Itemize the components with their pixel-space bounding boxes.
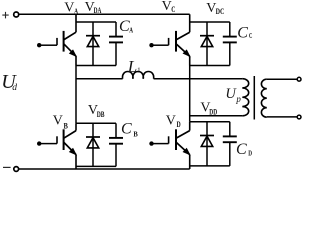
label CD [236, 141, 253, 158]
label L1 [127, 57, 141, 76]
wire bracket top B [76, 122, 116, 124]
svg-text:V: V [166, 113, 176, 128]
diode VDB [86, 123, 100, 166]
node secondary top terminal [297, 77, 301, 81]
svg-text:B: B [133, 130, 137, 139]
node secondary bottom terminal [297, 115, 301, 119]
diode VDA [86, 22, 100, 66]
svg-text:B: B [64, 120, 68, 130]
wire right leg mid [189, 66, 191, 122]
wire bracket top D [190, 121, 230, 123]
svg-text:DB: DB [97, 109, 105, 119]
wire left leg mid [75, 66, 77, 124]
label VB [53, 113, 68, 130]
svg-text:DD: DD [209, 107, 217, 117]
svg-text:1: 1 [137, 66, 141, 75]
transformer T1 secondary winding [261, 79, 266, 117]
transistor VC [149, 14, 189, 65]
label VDA [85, 0, 102, 15]
wire bracket bottom C [190, 65, 230, 67]
wire bracket bottom D [190, 165, 230, 167]
label VD [166, 113, 181, 129]
svg-text:d: d [12, 83, 17, 93]
wire bracket bottom A [76, 65, 116, 67]
svg-text:DA: DA [94, 5, 102, 15]
transformer T1 core [253, 76, 255, 120]
svg-text:DC: DC [216, 6, 225, 16]
wire secondary bottom [267, 116, 297, 118]
label CA [119, 18, 134, 35]
label VA [64, 1, 78, 16]
label VDB [88, 103, 105, 119]
label CB [121, 120, 138, 138]
svg-text:C: C [171, 4, 175, 14]
capacitor CA [109, 22, 123, 66]
svg-text:L: L [127, 57, 137, 76]
wire inductor to transformer primary [154, 78, 243, 80]
transistor VD [149, 122, 189, 169]
svg-text:A: A [129, 25, 133, 34]
label Up [225, 86, 241, 104]
transistor VA [37, 14, 76, 65]
label Ud [1, 71, 17, 93]
label CC [237, 25, 252, 42]
svg-text:C: C [237, 25, 248, 42]
svg-text:C: C [249, 31, 252, 40]
svg-text:C: C [121, 120, 132, 137]
svg-text:V: V [53, 113, 63, 128]
wire secondary top [267, 78, 297, 80]
wire bracket bottom B [76, 165, 116, 167]
svg-text:D: D [248, 148, 252, 157]
diode VDC [200, 22, 214, 66]
svg-text:D: D [177, 119, 181, 129]
wire node A to inductor [76, 78, 123, 80]
wire bracket top C [190, 21, 230, 23]
svg-text:A: A [74, 6, 79, 16]
svg-text:p: p [235, 94, 241, 104]
transformer T1 primary winding [242, 79, 248, 116]
wire bracket top A [76, 21, 116, 23]
svg-text:C: C [236, 141, 247, 158]
svg-text:V: V [64, 1, 74, 16]
wire bottom rail [19, 168, 190, 170]
capacitor CC [223, 22, 237, 66]
node - terminal [3, 167, 19, 172]
transistor VB [37, 123, 76, 169]
inductor L1 [122, 72, 153, 79]
label VDD [200, 100, 217, 116]
wire node B to transformer primary [190, 115, 243, 117]
label VC [162, 0, 176, 14]
capacitor CD [223, 122, 237, 166]
node + terminal [2, 12, 18, 19]
diode VDD [200, 122, 214, 166]
wire top rail [19, 13, 190, 15]
capacitor CB [109, 123, 123, 166]
label VDC [206, 1, 224, 16]
